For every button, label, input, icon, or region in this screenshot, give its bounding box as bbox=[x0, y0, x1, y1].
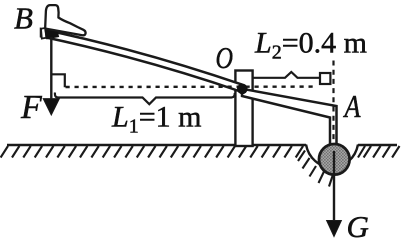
black pad at B bbox=[44, 27, 59, 39]
right-angle mark at F bbox=[52, 74, 65, 87]
force F arrow bbox=[43, 37, 59, 115]
L1 underbrace bbox=[55, 93, 235, 105]
svg-text:B: B bbox=[14, 1, 33, 36]
support post bbox=[235, 71, 252, 147]
svg-text:O: O bbox=[216, 40, 234, 75]
svg-text:L1=1 m: L1=1 m bbox=[111, 101, 201, 138]
dashed vertical line through A bbox=[332, 61, 334, 147]
pivot dot O bbox=[237, 84, 248, 95]
ball weight bbox=[319, 144, 350, 175]
L2 measure line with peak bbox=[253, 72, 320, 78]
svg-text:F: F bbox=[20, 89, 43, 126]
right-angle square at L2 end bbox=[320, 73, 330, 84]
dashed horizontal reference line bbox=[66, 85, 317, 88]
depression hatching bbox=[298, 146, 365, 187]
ground hatching bbox=[1, 146, 400, 158]
svg-text:L2=0.4 m: L2=0.4 m bbox=[254, 27, 367, 64]
lever right arm O to A with vertical drop bbox=[242, 89, 337, 152]
ground line right bbox=[358, 144, 397, 147]
svg-text:G: G bbox=[347, 209, 369, 240]
shoe / foot on lever end bbox=[45, 5, 85, 35]
svg-text:A: A bbox=[343, 88, 361, 124]
lever end cap at B bbox=[41, 28, 46, 39]
lever left arm B to O (slightly bowed) bbox=[41, 29, 242, 92]
ground line left bbox=[7, 144, 306, 147]
force G arrow bbox=[327, 151, 342, 237]
depression bowl bbox=[306, 145, 358, 168]
